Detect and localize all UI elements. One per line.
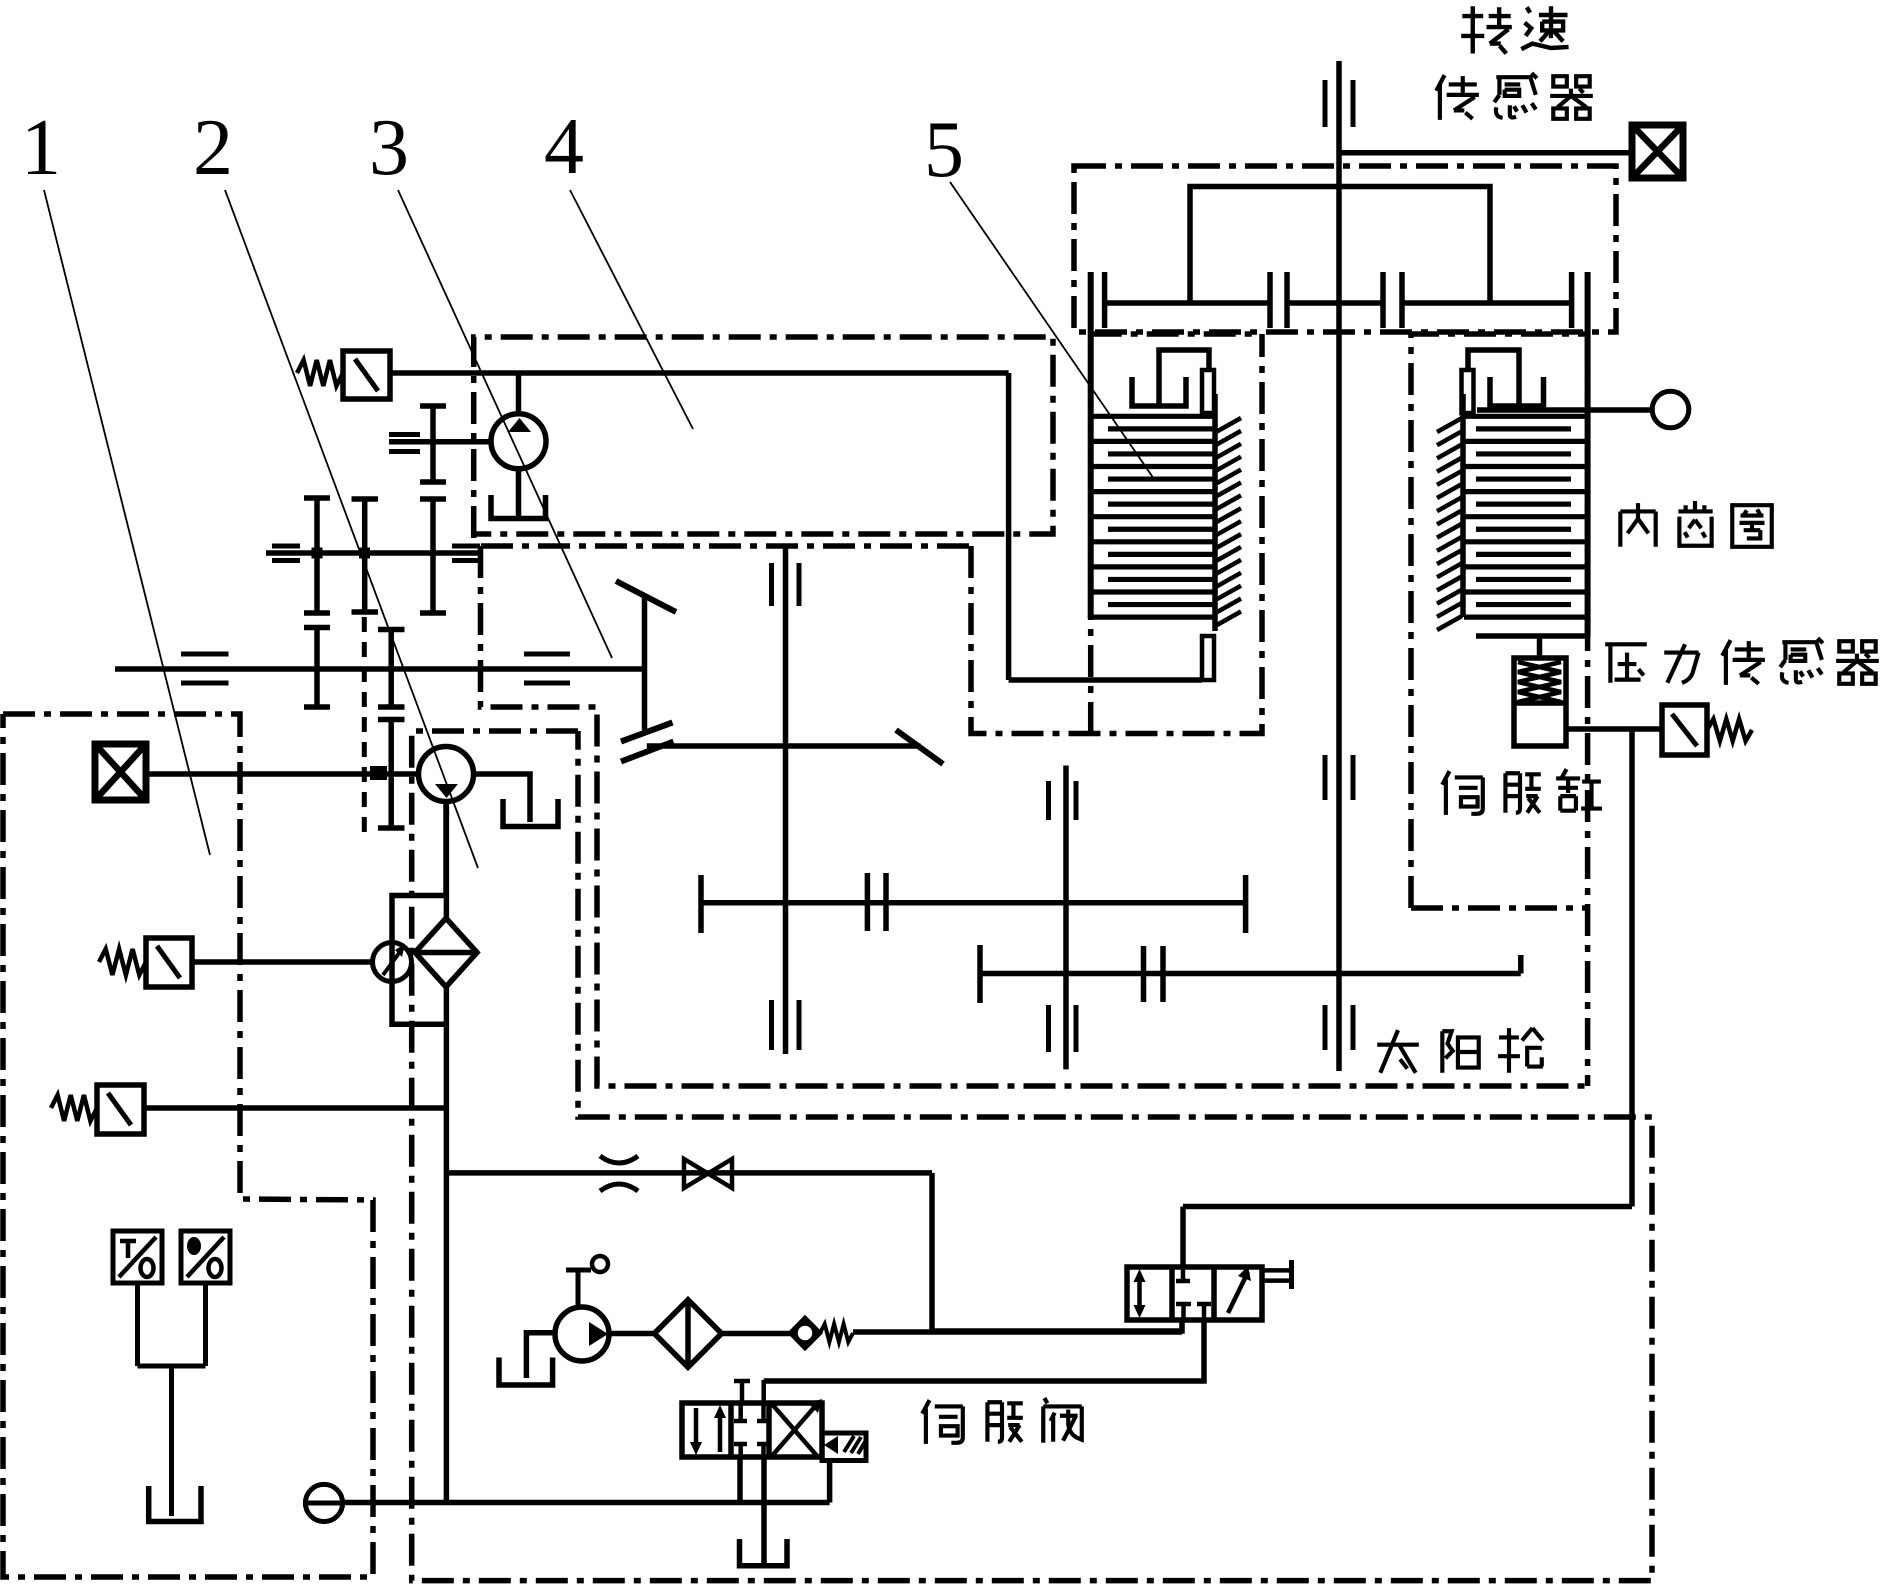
relief valve 1 box [343, 351, 390, 399]
pump 1 circle [491, 414, 546, 469]
gear V5 [430, 406, 436, 482]
leader line 5 [950, 182, 1154, 479]
text tai-yang-lun (sun gear) [1377, 1028, 1543, 1073]
gear V1b [314, 628, 320, 708]
pressure line drop [1180, 1207, 1186, 1268]
gear V5 mesh bar [420, 496, 446, 502]
charge filter diamond [654, 1300, 721, 1367]
charge pump handle [576, 1270, 581, 1307]
left clutch hub bar [1212, 394, 1218, 631]
temp sensor box [113, 1231, 162, 1283]
leader line 3 [398, 190, 612, 658]
bypass riser [929, 1173, 935, 1331]
mode valve divider 2 [1211, 1267, 1217, 1320]
pump 2 case drain [474, 774, 531, 822]
pump 1 drain [516, 469, 522, 516]
left clutch spring seat U [1132, 377, 1186, 406]
relief valve 3 wire [144, 1105, 446, 1111]
clutch bar b [1267, 272, 1273, 328]
sensor drain tank [149, 1486, 201, 1522]
charge pump flow triangle [589, 1322, 608, 1346]
mode valve blocked port top [1181, 1267, 1186, 1281]
sun gear shaft [980, 971, 1521, 977]
gear V3 [388, 630, 394, 708]
ring gear tap wire [1477, 407, 1652, 413]
carrier right T [1243, 875, 1249, 933]
check valve spring [820, 1324, 853, 1342]
servo valve divider 2 [766, 1403, 772, 1457]
input crossed box [95, 744, 146, 800]
mid shaft A [783, 547, 789, 1054]
svg-text:3: 3 [369, 104, 409, 192]
fork lever upper [616, 581, 676, 612]
fork lever right [896, 730, 943, 764]
carrier bracket [1190, 187, 1490, 304]
dashed gear centerline [362, 617, 367, 834]
mode valve double arrow [1137, 1274, 1142, 1313]
low pressure wire [343, 1500, 830, 1506]
svg-text:2: 2 [193, 104, 233, 192]
dash-dot gearbox inner step [971, 334, 1262, 734]
pump 2 circle [419, 747, 474, 802]
servo pilot cap [740, 1381, 745, 1403]
supply column lower [444, 987, 450, 1503]
main center shaft [1336, 61, 1342, 1071]
pump 1 tank [491, 495, 546, 519]
left clutch piston top [1202, 370, 1214, 413]
carrier left T [698, 875, 704, 933]
ring gear tap circle [1652, 391, 1689, 428]
S2 support marks right [524, 652, 570, 657]
level sensor box [181, 1231, 230, 1283]
S1 node 2 [359, 548, 370, 559]
pump 1 flow triangle [508, 418, 531, 432]
pump 2 out [443, 802, 449, 897]
mode valve out wire 2 [764, 1320, 1204, 1381]
clutch bar c [1284, 272, 1290, 328]
center shaft bearing low [1323, 1005, 1328, 1050]
right clutch spline hatching [1437, 418, 1462, 432]
pressure sensor spring [1707, 719, 1752, 741]
mode valve blocked ports bottom [1176, 1302, 1191, 1307]
pressure gauge [373, 943, 412, 982]
input shaft S1 [266, 550, 480, 556]
S2 support marks left [181, 652, 229, 657]
clutch link line mid [1287, 300, 1383, 306]
dash-dot right clutch box bottom [1411, 905, 1590, 911]
S1 node 1 [312, 548, 323, 559]
servo pilot wire [761, 1380, 766, 1403]
clutch bar e [1399, 272, 1405, 328]
left clutch hook [1159, 350, 1209, 406]
relief valve 2 box [146, 938, 192, 987]
gear V5b [430, 499, 436, 613]
right clutch plates [1464, 414, 1588, 419]
gear V1 mesh bar [304, 625, 330, 631]
sensor drain stem [169, 1366, 174, 1516]
S1 right support marks [452, 544, 480, 549]
sun shaft left T [977, 945, 983, 1003]
clutch bar f [1569, 272, 1575, 328]
solenoid return drop [827, 1461, 833, 1503]
relief valve 2 spring [99, 949, 146, 975]
right clutch hub bar [1460, 394, 1466, 617]
svg-text:1: 1 [21, 104, 61, 192]
svg-text:4: 4 [544, 103, 584, 191]
clutch link line right [1402, 300, 1572, 306]
left clutch spline hatching [1216, 418, 1241, 432]
clutch link line left [1105, 300, 1270, 306]
pump 2 input shaft [146, 771, 419, 777]
mode valve plunger [1262, 1268, 1291, 1273]
gear V4 [388, 720, 394, 829]
servo cylinder wire [1566, 726, 1662, 732]
pump 2 flow triangle [435, 784, 458, 798]
left clutch plates [1091, 414, 1213, 419]
bearing marks top of center shaft [1323, 80, 1328, 127]
text si-fu-gang (servo cylinder) [1442, 769, 1602, 815]
shaft B bearing bottom [1046, 1005, 1051, 1052]
carrier shaft [701, 900, 1246, 906]
filter bypass box [392, 896, 446, 1025]
charge pump circle [555, 1307, 609, 1361]
servo valve body [682, 1403, 822, 1457]
dash-dot gearbox top edge [481, 543, 970, 549]
servo valve cross flow [771, 1403, 818, 1457]
S4 support marks [389, 432, 420, 437]
servo cylinder piston [1514, 700, 1566, 706]
servo valve divider 1 [728, 1403, 734, 1457]
sun shaft right T [1518, 955, 1524, 974]
dash-dot hydraulic box boundary [412, 731, 1652, 1581]
left clutch piston bottom [1202, 636, 1214, 680]
right clutch piston top [1462, 370, 1474, 413]
charge pump tank [499, 1358, 553, 1386]
dash-dot left clutch box [1091, 334, 1260, 734]
dash-dot box 4 (pump section) [474, 337, 1053, 538]
clutch bar a [1102, 272, 1108, 328]
gear V2 [362, 499, 368, 612]
right clutch stem [1537, 636, 1543, 658]
dash-dot box 5 (planetary top) [1074, 166, 1616, 332]
sensor manifold [138, 1364, 206, 1369]
speed sensor crossed box [1632, 125, 1683, 178]
relief valve 2 wire [192, 959, 373, 965]
servo tank [740, 1539, 788, 1566]
carrier clutch bars [865, 873, 871, 931]
left clutch feed riser [1006, 373, 1012, 680]
mode valve body [1127, 1267, 1262, 1320]
shaft A bearing bottom [769, 1000, 774, 1050]
servo valve out stub [737, 1457, 743, 1503]
main filter diamond [415, 918, 477, 987]
leader line 4 [570, 190, 693, 429]
restrictor orifice [600, 1156, 638, 1163]
pressure line vertical [1629, 729, 1635, 1207]
lay shaft S2 [115, 666, 645, 672]
supply column upper [444, 802, 450, 919]
right clutch spring seat U [1490, 377, 1544, 406]
servo valve up arrow [718, 1410, 723, 1452]
charge pump out wire [609, 1331, 654, 1337]
servo valve tank stub [761, 1457, 767, 1563]
pump 2 drain tank [503, 799, 558, 827]
servo solenoid [822, 1433, 866, 1461]
temp sensor glyphs [120, 1241, 136, 1258]
level sensor glyphs [187, 1237, 201, 1255]
text chuan-gan-qi (sensor) [1436, 73, 1593, 120]
charge wire 2 [722, 1331, 791, 1337]
sun shaft clutch bars [1141, 946, 1147, 1002]
pump 1 riser [516, 373, 522, 414]
check valve [790, 1318, 820, 1348]
servo cylinder spring [1518, 662, 1561, 702]
fork stem [642, 596, 648, 730]
pressure line horizontal [1183, 1204, 1632, 1210]
relief valve 3 spring [51, 1095, 97, 1121]
text nei-chi-quan (ring gear) [1620, 501, 1771, 547]
gauge port circle [305, 1484, 342, 1521]
clutch bar d [1380, 272, 1386, 328]
pressure sensor box [1662, 705, 1707, 755]
right clutch bottom plate [1476, 633, 1588, 639]
charge wire 3 [853, 1329, 1182, 1335]
dash-dot gearbox left upper edge [481, 546, 1591, 1086]
center shaft bearing mid [1323, 755, 1328, 800]
dash-dot outer unit box [3, 714, 373, 1577]
gear V1 [314, 498, 320, 613]
sensor drop lines [135, 1283, 140, 1366]
right clutch hook [1468, 350, 1519, 406]
fork double slash [621, 723, 673, 742]
S1 left support marks [272, 544, 300, 549]
shutoff valve [684, 1159, 708, 1188]
fork link wire [647, 743, 921, 749]
servo cylinder body [1514, 658, 1566, 746]
restrictor branch wire [446, 1170, 932, 1176]
shaft B bearing top [1046, 781, 1051, 820]
servo valve down arrow [694, 1408, 699, 1450]
relief valve 1 spring [297, 360, 343, 386]
charge pump suction [526, 1333, 555, 1378]
leader line 2 [225, 190, 478, 868]
relief valve 1 wire [390, 370, 1009, 376]
servo valve blocked ports [738, 1403, 743, 1421]
mid shaft B [1063, 766, 1069, 1070]
pump 2 shaft node [370, 766, 387, 780]
pump 1 shaft S4 [389, 439, 491, 445]
dash-dot right clutch box [1411, 334, 1590, 908]
mode valve out wire 1 [932, 1320, 1182, 1331]
shaft A bearing top [769, 563, 774, 606]
relief valve 3 box [97, 1085, 144, 1134]
mode valve flow arrow [1228, 1272, 1248, 1313]
text ya-li-chuan-gan-qi (pressure sensor) [1605, 638, 1879, 685]
right clutch drum bar [1585, 272, 1591, 636]
left clutch feed line [1009, 677, 1202, 683]
gear V3 mesh bar [378, 717, 405, 723]
leader line 1 [44, 190, 210, 855]
mode valve divider 1 [1169, 1267, 1175, 1320]
dash-dot right boundary vertical [1585, 334, 1591, 1086]
text zhuan-su (speed) [1461, 6, 1568, 53]
text si-fu-fa (servo valve) [922, 1398, 1082, 1444]
svg-text:5: 5 [924, 106, 964, 194]
wire to speed sensor [1339, 150, 1632, 156]
left clutch drum bar [1088, 272, 1094, 619]
